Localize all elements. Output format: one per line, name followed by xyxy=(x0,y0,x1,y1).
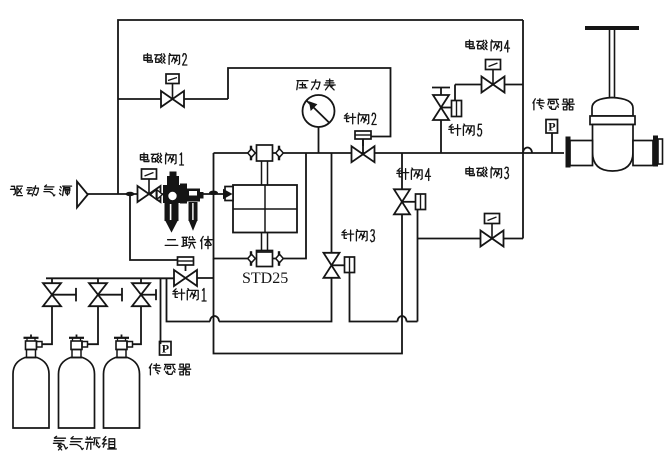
label 氮气瓶组 xyxy=(53,436,116,450)
needle valve 4 xyxy=(394,189,426,214)
gas bottle 3 xyxy=(104,307,142,429)
label 电磁阀1 xyxy=(140,153,183,165)
wire needle valve 4 handle drop xyxy=(417,210,419,322)
needle valve 2 xyxy=(352,131,375,162)
manifold valve 2 xyxy=(89,278,122,306)
manifold valve 3 xyxy=(132,278,156,306)
wire sensor 1 stem xyxy=(551,133,553,153)
wire solenoid valve 2 line xyxy=(118,98,228,100)
pressure gauge 压力表 xyxy=(303,95,335,127)
cylinder actuator STD25 xyxy=(224,145,298,267)
node drive/pilot junction xyxy=(126,192,135,196)
wire gauge stem xyxy=(318,127,320,153)
svg-text:P: P xyxy=(548,120,555,134)
node STD25 inlet junction xyxy=(209,191,218,195)
wire solenoid valve 4 line xyxy=(455,84,523,86)
wire needle valve 1 pilot drop xyxy=(130,194,178,260)
svg-text:STD25: STD25 xyxy=(242,270,288,287)
wire gauge box top xyxy=(228,68,391,137)
svg-text:P: P xyxy=(162,342,169,356)
wire needle valve 5 drop xyxy=(440,120,442,153)
label 传感器 top xyxy=(533,99,574,110)
label 压力表 xyxy=(297,79,335,90)
wire main line xyxy=(214,152,565,154)
wire manifold xyxy=(46,277,174,279)
wire lower link to needle valve 4 xyxy=(214,213,403,354)
pressure sensor 1 xyxy=(546,120,558,134)
solenoid valve 3 xyxy=(481,214,504,247)
wire outer loop right edge down to solenoid-3 line xyxy=(522,20,524,239)
wire needle valve 4 riser xyxy=(401,153,403,191)
label 传感器 bottom xyxy=(149,364,190,375)
wire hop manifold link over vertical xyxy=(210,316,219,322)
label 电磁阀4 xyxy=(466,40,510,52)
wire needle valve 5 pilot xyxy=(454,85,456,101)
wire outer loop top/left xyxy=(118,20,523,194)
label 驱动气源 xyxy=(11,185,72,196)
solenoid valve 2 xyxy=(161,74,184,107)
solenoid valve 1 xyxy=(138,169,161,202)
label 针阀3 xyxy=(342,230,375,242)
label 针阀1 xyxy=(173,289,206,302)
needle valve 3 xyxy=(324,253,355,278)
label 电磁阀3 xyxy=(466,167,509,179)
gate valve with handwheel xyxy=(566,28,663,171)
pressure sensor 2 xyxy=(160,342,172,356)
wire needle valve 2 stem xyxy=(362,139,364,153)
label STD25 xyxy=(242,270,288,287)
gas bottle 2 xyxy=(59,307,99,429)
wire STD25 enclosure left/bottom/right xyxy=(214,153,307,259)
wire needle valve 3 riser xyxy=(331,153,333,253)
needle valve 1 xyxy=(174,257,197,286)
wire solenoid valve 3 line xyxy=(418,238,524,240)
label 二联体 xyxy=(165,236,212,248)
wire hop handle link over needle-4 riser xyxy=(398,316,407,322)
wire manifold drop to needle valve 3 xyxy=(167,278,332,322)
wire needle valve 1 out to drop xyxy=(197,277,214,279)
wire drive source line xyxy=(88,193,229,195)
label 针阀2 xyxy=(344,113,376,125)
gas bottle 1 xyxy=(13,307,52,429)
wire sensor 2 drop xyxy=(160,278,162,344)
label 针阀4 xyxy=(397,168,431,181)
drive gas source arrow xyxy=(77,182,88,208)
manifold valve 1 xyxy=(43,278,76,306)
label 电磁阀2 xyxy=(144,54,187,66)
wire needle valve 3 handle link xyxy=(350,272,418,322)
wire hop main line over right edge xyxy=(523,148,532,154)
needle valve 5 xyxy=(432,88,462,121)
label 针阀5 xyxy=(449,124,482,136)
FRL duplex unit 二联体 xyxy=(151,172,204,232)
solenoid valve 4 xyxy=(482,60,505,93)
